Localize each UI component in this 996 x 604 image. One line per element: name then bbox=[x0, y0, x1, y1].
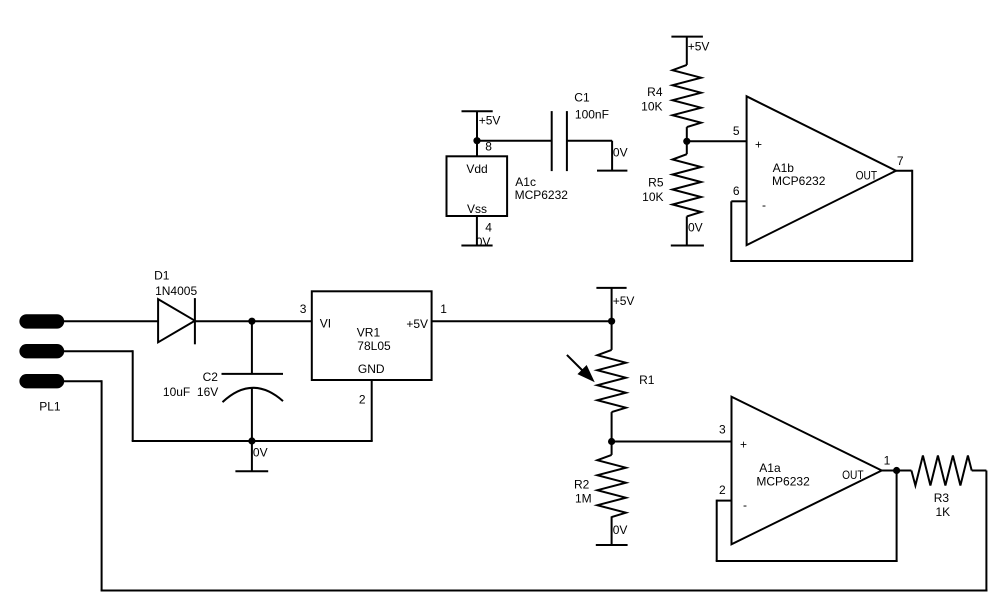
svg-text:+5V: +5V bbox=[688, 39, 710, 53]
svg-text:MCP6232: MCP6232 bbox=[515, 188, 569, 202]
svg-text:-: - bbox=[743, 498, 747, 512]
svg-text:VR1: VR1 bbox=[357, 325, 381, 339]
svg-text:R3: R3 bbox=[934, 491, 950, 505]
svg-text:OUT: OUT bbox=[856, 169, 878, 183]
svg-text:R5: R5 bbox=[648, 176, 664, 190]
svg-text:OUT: OUT bbox=[842, 468, 864, 482]
svg-text:1N4005: 1N4005 bbox=[155, 284, 197, 298]
svg-text:VI: VI bbox=[320, 316, 331, 330]
svg-text:C2: C2 bbox=[203, 370, 219, 384]
svg-text:0V: 0V bbox=[688, 221, 703, 235]
svg-text:1: 1 bbox=[884, 454, 891, 468]
svg-text:1: 1 bbox=[440, 302, 447, 316]
svg-text:Vss: Vss bbox=[467, 202, 487, 216]
svg-text:4: 4 bbox=[485, 220, 492, 234]
svg-text:3: 3 bbox=[719, 423, 726, 437]
svg-text:1M: 1M bbox=[575, 492, 592, 506]
svg-text:PL1: PL1 bbox=[39, 400, 61, 414]
svg-text:MCP6232: MCP6232 bbox=[772, 174, 826, 188]
svg-text:2: 2 bbox=[359, 393, 366, 407]
svg-text:R1: R1 bbox=[639, 373, 655, 387]
svg-text:+5V: +5V bbox=[479, 114, 501, 128]
svg-text:MCP6232: MCP6232 bbox=[756, 475, 810, 489]
svg-text:GND: GND bbox=[358, 362, 385, 376]
svg-text:Vdd: Vdd bbox=[466, 162, 487, 176]
svg-text:A1c: A1c bbox=[515, 175, 536, 189]
svg-text:2: 2 bbox=[719, 483, 726, 497]
svg-text:0V: 0V bbox=[613, 523, 628, 537]
svg-text:78L05: 78L05 bbox=[357, 339, 391, 353]
svg-text:10uF 16V: 10uF 16V bbox=[163, 385, 218, 399]
svg-text:1K: 1K bbox=[936, 505, 951, 519]
svg-text:R4: R4 bbox=[647, 85, 663, 99]
svg-text:+5V: +5V bbox=[406, 317, 428, 331]
svg-text:0V: 0V bbox=[613, 145, 628, 159]
svg-text:3: 3 bbox=[300, 302, 307, 316]
svg-text:100nF: 100nF bbox=[575, 107, 609, 121]
svg-text:C1: C1 bbox=[574, 91, 590, 105]
svg-text:A1b: A1b bbox=[773, 161, 795, 175]
svg-text:0V: 0V bbox=[253, 445, 268, 459]
svg-text:0V: 0V bbox=[476, 235, 491, 249]
svg-text:+: + bbox=[740, 438, 747, 452]
svg-text:10K: 10K bbox=[642, 190, 663, 204]
svg-text:7: 7 bbox=[897, 154, 904, 168]
svg-text:+5V: +5V bbox=[613, 294, 635, 308]
svg-text:R2: R2 bbox=[574, 478, 590, 492]
svg-text:6: 6 bbox=[733, 184, 740, 198]
svg-text:5: 5 bbox=[733, 124, 740, 138]
svg-text:A1a: A1a bbox=[759, 461, 781, 475]
svg-text:10K: 10K bbox=[641, 100, 662, 114]
svg-text:+: + bbox=[755, 138, 762, 152]
svg-text:-: - bbox=[762, 198, 766, 212]
svg-text:D1: D1 bbox=[154, 269, 170, 283]
